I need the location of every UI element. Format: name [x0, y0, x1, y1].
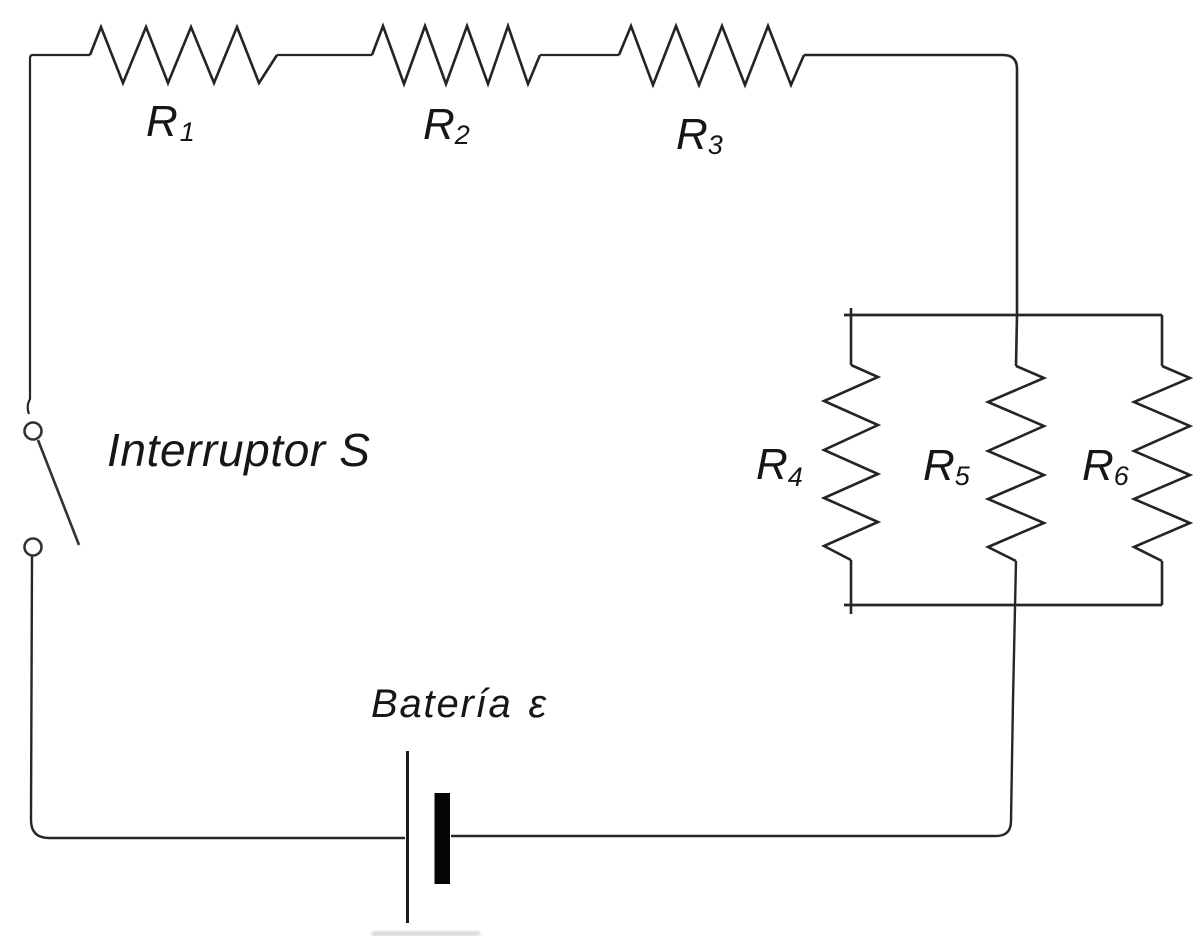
switch S blade	[38, 440, 79, 545]
svg-text:R1: R1	[146, 97, 195, 147]
svg-text:R4: R4	[756, 440, 803, 492]
node: top bus of parallel block	[844, 314, 1162, 317]
wire: R6 bottom lead	[1161, 561, 1164, 605]
wire: R3 to top-right corner, down to parallel block	[804, 55, 1017, 315]
wire: R5 bottom lead through bus down to bottom-right corner	[451, 561, 1016, 836]
svg-text:Batería ε: Batería ε	[371, 682, 548, 726]
resistor R5	[988, 366, 1044, 561]
wire: R4 bottom lead	[850, 560, 853, 614]
battery ε plate (short thick, positive)	[435, 793, 451, 884]
svg-text:R2: R2	[423, 100, 470, 150]
node: bottom bus of parallel block	[844, 604, 1162, 607]
wire: R2 to R3	[540, 54, 619, 56]
switch S bottom contact	[25, 539, 42, 556]
resistor R2	[372, 26, 540, 84]
resistor R1	[90, 27, 277, 83]
svg-text:R3: R3	[676, 110, 723, 160]
resistor R6	[1134, 366, 1190, 561]
svg-text:R6: R6	[1082, 441, 1130, 491]
wire: R1 to R2	[277, 54, 372, 56]
watermark remnant at bottom edge	[372, 931, 480, 936]
switch S top contact	[25, 423, 42, 440]
resistor R3	[619, 26, 804, 85]
svg-text:Interruptor S: Interruptor S	[107, 424, 370, 476]
wire: R4 top lead	[850, 308, 853, 365]
wire: left vertical (top-left corner to switch)	[28, 55, 90, 414]
wire: R6 top lead	[1161, 315, 1164, 366]
svg-text:R5: R5	[923, 441, 971, 491]
wire: bottom left (battery to bottom-left corner and up to switch)	[31, 556, 405, 838]
battery ε plate (long, negative-left)	[406, 751, 409, 923]
wire: R5 top lead	[1016, 315, 1017, 366]
resistor R4	[824, 365, 878, 560]
